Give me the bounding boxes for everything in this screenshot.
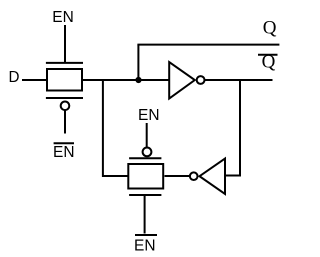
wire node up to Q line bbox=[137, 45, 139, 80]
inverter U1 output bubble bbox=[197, 76, 205, 84]
transmission gate TG1 body bbox=[47, 69, 82, 91]
TG2 PMOS gate bubble (top) bbox=[143, 148, 152, 157]
svg-text:Q: Q bbox=[262, 51, 276, 72]
wire Q output line bbox=[137, 44, 279, 46]
wire TG1 output to inverter U1 input bbox=[83, 79, 169, 81]
wire U2 output to TG2 right terminal bbox=[165, 175, 190, 177]
svg-text:EN: EN bbox=[52, 9, 74, 26]
svg-text:EN: EN bbox=[138, 107, 160, 124]
inverter U1 triangle bbox=[169, 62, 195, 99]
wire EN to TG1 top gate bbox=[64, 25, 66, 63]
label Qbar overline bbox=[258, 54, 278, 56]
junction dot at internal node bbox=[135, 77, 141, 83]
TG1 top gate bar bbox=[46, 62, 83, 64]
wire TG1 bubble to ENbar label bbox=[64, 111, 66, 134]
TG1 bottom gate bar bbox=[46, 97, 83, 99]
svg-text:Q: Q bbox=[263, 18, 277, 39]
wire EN label to TG2 bubble bbox=[146, 123, 148, 148]
svg-text:D: D bbox=[9, 69, 20, 86]
wire TG2 bottom gate to ENbar label bbox=[144, 196, 146, 234]
TG1 PMOS gate bubble bbox=[61, 102, 70, 111]
wire D input lead bbox=[22, 79, 47, 81]
inverter U2 output bubble bbox=[190, 172, 198, 180]
svg-text:EN: EN bbox=[134, 238, 156, 255]
svg-text:EN: EN bbox=[53, 144, 75, 161]
wire feedback right: Qbar down to inverter U2 input bbox=[225, 80, 240, 176]
label ENbar overline (TG2 NMOS gate) bbox=[135, 234, 157, 236]
TG2 top gate bar bbox=[129, 157, 161, 159]
label ENbar overline (TG1 PMOS gate) bbox=[54, 142, 74, 144]
wire feedback left: node down to TG2 left terminal bbox=[103, 80, 129, 176]
wire U1 output to Qbar line bbox=[205, 79, 273, 81]
inverter U2 triangle (pointing left) bbox=[200, 159, 226, 195]
transmission gate TG2 body bbox=[128, 164, 163, 189]
TG2 bottom gate bar bbox=[129, 194, 161, 196]
